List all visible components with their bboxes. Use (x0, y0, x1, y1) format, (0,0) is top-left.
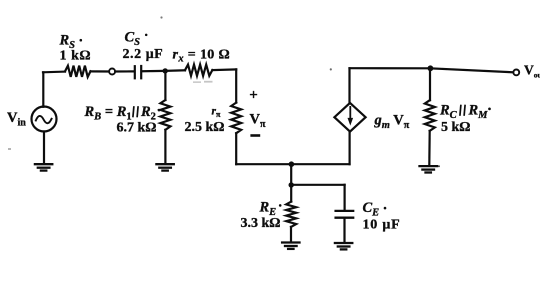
svg-text:Vout: Vout (524, 63, 540, 80)
wire dep-source bottom lead (349, 132, 351, 165)
speck top left (160, 16, 162, 18)
svg-text:6.7 kΩ: 6.7 kΩ (117, 121, 157, 136)
resistor RB (160, 100, 170, 130)
node Vout terminal (513, 70, 519, 76)
label minus (250, 134, 260, 137)
wire top-left rail segment before RS (43, 70, 65, 73)
speck left edge (8, 148, 11, 150)
node RE-CE junction (289, 182, 294, 187)
wire RS to open terminal (91, 70, 110, 72)
svg-text:RC: RC (439, 103, 458, 122)
svg-text:Vin: Vin (7, 110, 26, 129)
wire RE top lead through junction2 (290, 164, 292, 201)
node junction CS-RB-rx (163, 68, 168, 73)
svg-text:gm Vπ: gm Vπ (374, 113, 410, 132)
resistor RE (286, 202, 296, 227)
svg-text:CE: CE (363, 200, 380, 219)
wire RC top lead (429, 68, 431, 100)
wire emitter rail (236, 163, 349, 165)
wire CS to junction to rx (142, 69, 185, 72)
wire rpi top lead (235, 69, 237, 102)
resistor rpi (231, 103, 241, 134)
svg-text:5 kΩ: 5 kΩ (441, 120, 471, 135)
svg-text:10 μF: 10 μF (363, 218, 401, 233)
speck near diamond (330, 68, 332, 70)
speck right of RC ground (438, 165, 440, 167)
svg-text:+: + (249, 88, 258, 104)
sine wave inside Vin (36, 116, 52, 123)
capacitor CS (135, 66, 141, 78)
smudge under rx (193, 81, 201, 83)
ground RB (156, 164, 173, 170)
svg-text:1 kΩ: 1 kΩ (60, 49, 92, 64)
svg-text:2.2 μF: 2.2 μF (123, 47, 164, 62)
node emitter junction (289, 161, 295, 167)
wire CE bottom lead (343, 219, 345, 243)
svg-text:Vπ: Vπ (250, 112, 266, 131)
wire RB top lead (164, 71, 166, 100)
wire terminal to CS (115, 70, 133, 72)
svg-text:2.5 kΩ: 2.5 kΩ (185, 120, 225, 135)
svg-text:3.3 kΩ: 3.3 kΩ (241, 216, 281, 231)
wire Vin top vertical (42, 72, 44, 107)
arrow inside source (349, 107, 351, 121)
wire top-right rail (350, 67, 431, 69)
wire rpi bottom lead (235, 133, 237, 164)
resistor rx (185, 65, 212, 76)
ground RC (420, 166, 437, 172)
wire RB bottom lead (164, 130, 166, 164)
wire rx to rpi corner (212, 68, 236, 71)
wire junction2 to CE (291, 184, 344, 186)
node collector junction (428, 65, 434, 71)
svg-text:rπ: rπ (212, 106, 221, 120)
ground CE (335, 243, 352, 249)
ground RE (282, 243, 299, 249)
resistor RS (65, 66, 91, 77)
wire RE bottom lead (290, 227, 292, 242)
svg-text:CS: CS (125, 30, 141, 49)
wire dep-source top lead (348, 68, 350, 103)
svg-text:rx = 10 Ω: rx = 10 Ω (173, 48, 231, 65)
resistor RC (425, 100, 435, 131)
dependent source gmVpi diamond (334, 103, 365, 132)
ground Vin (35, 164, 52, 170)
wire RC bottom lead (428, 131, 431, 166)
wire junction to Vout (430, 68, 513, 72)
capacitor CE (336, 211, 354, 218)
wire CE top lead (344, 185, 346, 210)
node open terminal after RS (109, 69, 115, 75)
svg-text:RM: RM (468, 103, 489, 122)
wire Vin bottom vertical (43, 132, 45, 164)
source Vin circle (32, 107, 57, 132)
